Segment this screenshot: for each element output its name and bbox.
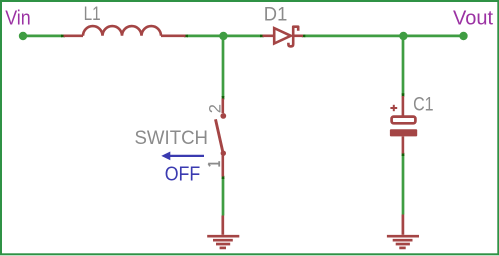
switch bottom contact dot (221, 151, 226, 156)
wire switch pin 1 down to ground (222, 178, 225, 216)
wire junction down to C1 (402, 36, 405, 95)
ground under C1 (387, 215, 419, 248)
capacitor C1 (polarized) top pin (402, 96, 405, 116)
svg-text:OFF: OFF (165, 162, 201, 185)
pin number 1 (208, 161, 220, 166)
switch pin 1 stub (222, 155, 225, 177)
arrow (switch OFF direction) (166, 155, 204, 157)
switch top contact dot (220, 113, 226, 119)
wire C1 down to ground (402, 155, 405, 215)
inductor L1 (64, 26, 186, 36)
svg-text:Vout: Vout (453, 8, 493, 30)
node junction D1/C1 (399, 32, 407, 40)
wire D1 to Vout (305, 35, 464, 38)
svg-text:C1: C1 (413, 94, 434, 116)
svg-text:Vin: Vin (5, 7, 31, 29)
switch SW (SPST) pin 2 stub (222, 99, 225, 114)
wire Vin to L1 (23, 35, 62, 38)
node at Vout (459, 32, 467, 40)
plus sign of C1 (390, 105, 397, 111)
wire end overlap marks (dark green) (61, 36, 403, 179)
capacitor C1 bottom pin (402, 136, 405, 153)
node junction L1/D1/switch (219, 32, 227, 40)
svg-text:L1: L1 (84, 4, 101, 25)
node at Vin (19, 32, 27, 40)
svg-text:SWITCH: SWITCH (135, 128, 209, 149)
capacitor C1 top plate (hollow) (392, 117, 416, 124)
ground under switch (207, 216, 239, 248)
wire junction down to switch pin 2 (222, 36, 225, 97)
capacitor C1 bottom plate (solid) (390, 129, 417, 136)
svg-text:2: 2 (207, 104, 225, 113)
diode D1 (Schottky) (263, 27, 304, 47)
wire L1 to D1 (187, 35, 261, 38)
switch lever (open) (216, 119, 223, 152)
svg-text:D1: D1 (264, 3, 288, 25)
